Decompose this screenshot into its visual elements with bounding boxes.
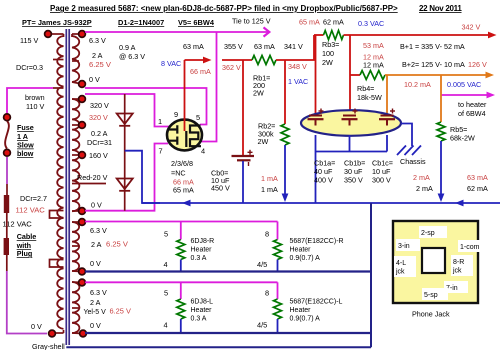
svg-text:10.2 mA: 10.2 mA bbox=[404, 80, 431, 89]
wire plug to 0V bbox=[6, 213, 8, 238]
svg-text:8 VAC: 8 VAC bbox=[161, 59, 181, 68]
ground bus bbox=[142, 202, 500, 204]
phone jack box bbox=[393, 221, 478, 303]
svg-text:5: 5 bbox=[164, 289, 168, 298]
svg-text:400 V: 400 V bbox=[314, 176, 333, 185]
svg-text:of 6BW4: of 6BW4 bbox=[458, 109, 486, 118]
tap dot 0V w3 bbox=[80, 330, 87, 337]
svg-text:342 V: 342 V bbox=[462, 23, 481, 32]
wire 5687-R bottom bbox=[277, 260, 279, 272]
svg-text:18k-5W: 18k-5W bbox=[357, 93, 382, 102]
svg-text:Rb4=: Rb4= bbox=[357, 84, 374, 93]
svg-text:0 V: 0 V bbox=[91, 201, 102, 210]
svg-text:110 V: 110 V bbox=[26, 102, 44, 111]
svg-text:53 mA: 53 mA bbox=[363, 41, 384, 50]
svg-text:1-com: 1-com bbox=[460, 244, 480, 251]
svg-text:2 A: 2 A bbox=[92, 51, 103, 60]
resistor 5687-R heater bbox=[274, 240, 282, 260]
wire B+2 orange bbox=[385, 74, 486, 76]
svg-text:DCr=0.3: DCr=0.3 bbox=[16, 63, 43, 72]
plug block bbox=[4, 238, 9, 255]
wire 320V to pin1 bbox=[85, 94, 169, 127]
wire diode junction to ground bus bbox=[125, 151, 160, 203]
svg-text:4: 4 bbox=[164, 321, 168, 330]
wire 6.3V-0V to pin5 bbox=[85, 88, 207, 125]
svg-text:0.005 VAC: 0.005 VAC bbox=[447, 80, 481, 89]
svg-text:3-in: 3-in bbox=[398, 243, 410, 250]
tap dot 0V heater bbox=[79, 81, 86, 88]
wire plate output arrow bbox=[185, 59, 205, 61]
svg-text:4-L: 4-L bbox=[396, 260, 406, 267]
svg-text:9: 9 bbox=[174, 110, 178, 119]
svg-text:4: 4 bbox=[201, 147, 205, 156]
svg-text:7: 7 bbox=[159, 147, 163, 156]
resistor 6DJ8-L heater bbox=[177, 299, 185, 319]
svg-text:115 V: 115 V bbox=[20, 36, 38, 45]
svg-text:4/5: 4/5 bbox=[257, 260, 267, 269]
svg-text:1 mA: 1 mA bbox=[261, 174, 278, 183]
jack pin 3-in bbox=[396, 239, 420, 251]
diode D2 bbox=[117, 179, 133, 190]
tube V5 6BW4 bbox=[167, 120, 202, 151]
svg-text:12 mA: 12 mA bbox=[363, 61, 384, 70]
svg-text:100: 100 bbox=[322, 49, 334, 58]
heater return R blue bbox=[85, 270, 371, 272]
svg-text:Chassis: Chassis bbox=[400, 157, 426, 166]
wire to heater of 6BW4 bbox=[441, 94, 487, 96]
svg-text:@ 6.3 V: @ 6.3 V bbox=[119, 52, 145, 61]
wire 5687-L bottom bbox=[277, 319, 279, 333]
primary stub DCr bbox=[53, 59, 64, 61]
tap dot 160V bbox=[79, 152, 86, 159]
dot primary bottom bbox=[49, 330, 56, 337]
svg-text:6DJ8-L: 6DJ8-L bbox=[191, 299, 214, 306]
wire diode branch bbox=[124, 94, 126, 211]
tap dot 6.3V w2 bbox=[79, 219, 86, 226]
svg-text:6DJ8-R: 6DJ8-R bbox=[191, 238, 215, 245]
wire Rb2 to ground arrow bbox=[284, 145, 286, 194]
svg-text:8: 8 bbox=[265, 289, 269, 298]
svg-text:2W: 2W bbox=[322, 58, 333, 67]
navy rail bottom bbox=[66, 346, 371, 348]
svg-text:to heater: to heater bbox=[458, 100, 487, 109]
svg-text:0 V: 0 V bbox=[31, 322, 42, 331]
heater feed R magenta bbox=[85, 221, 278, 223]
wire pin4 to tie line bbox=[201, 32, 217, 142]
svg-text:66 mA: 66 mA bbox=[190, 67, 211, 76]
svg-text:Heater: Heater bbox=[191, 247, 213, 254]
svg-text:Rb3=: Rb3= bbox=[322, 40, 339, 49]
svg-text:6.25 V: 6.25 V bbox=[89, 60, 112, 69]
wire 6DJ8-R bottom bbox=[180, 260, 182, 272]
svg-text:126 V: 126 V bbox=[468, 60, 487, 69]
svg-text:Phone Jack: Phone Jack bbox=[412, 310, 450, 319]
wire brown 110V to fuse bbox=[7, 88, 53, 114]
resistor Rb5 bbox=[437, 122, 445, 141]
svg-text:2 A: 2 A bbox=[91, 240, 102, 249]
svg-text:0.9(0.7) A: 0.9(0.7) A bbox=[290, 316, 321, 323]
primary stub low bbox=[50, 260, 64, 268]
tap dot 0V w2 bbox=[79, 268, 86, 275]
secondary HV winding bbox=[72, 99, 79, 211]
capacitor Cb1b bbox=[343, 115, 356, 117]
svg-text:63 mA: 63 mA bbox=[183, 42, 204, 51]
svg-text:5687(E182CC)-R: 5687(E182CC)-R bbox=[290, 238, 344, 245]
phone jack center hole bbox=[422, 248, 445, 273]
transformer core bbox=[65, 29, 67, 345]
svg-text:Fuse: Fuse bbox=[17, 123, 34, 132]
svg-text:22 Nov 2011: 22 Nov 2011 bbox=[419, 4, 462, 13]
svg-text:blow: blow bbox=[17, 149, 34, 158]
svg-text:jck: jck bbox=[452, 268, 462, 275]
svg-text:62 mA: 62 mA bbox=[323, 18, 344, 27]
wire Rb3 to B+1 arrow bbox=[344, 34, 489, 36]
svg-text:=NC: =NC bbox=[171, 169, 186, 178]
svg-text:62 mA: 62 mA bbox=[467, 184, 488, 193]
svg-text:0.3 A: 0.3 A bbox=[191, 316, 207, 323]
tube pin 9 red wire bbox=[184, 60, 186, 131]
svg-text:Heater: Heater bbox=[290, 307, 312, 314]
svg-text:Red-20 V: Red-20 V bbox=[77, 173, 108, 182]
svg-text:2-sp: 2-sp bbox=[421, 230, 435, 237]
svg-text:0.2 A: 0.2 A bbox=[91, 129, 108, 138]
svg-text:68k-2W: 68k-2W bbox=[450, 134, 475, 143]
cable ferrite block bbox=[4, 195, 9, 213]
svg-text:0.3 VAC: 0.3 VAC bbox=[358, 19, 384, 28]
svg-text:63 mA: 63 mA bbox=[467, 173, 488, 182]
wire fuse to plug bbox=[6, 157, 8, 184]
svg-text:2W: 2W bbox=[258, 137, 269, 146]
can capacitor Cb1 bbox=[301, 110, 401, 136]
wire Cb1a feed bbox=[315, 35, 317, 116]
svg-text:8: 8 bbox=[265, 230, 269, 239]
secondary winding 6.3V heater top bbox=[72, 36, 79, 82]
svg-text:112 VAC: 112 VAC bbox=[16, 206, 46, 215]
primary tap brown 110V bbox=[53, 87, 64, 89]
wire Rb5 to ground arrow bbox=[440, 141, 442, 194]
wire Rb1 to corner bbox=[276, 35, 314, 60]
heater feed L magenta bbox=[85, 281, 278, 283]
wire can to chassis bbox=[401, 124, 412, 147]
svg-text:0.3 A: 0.3 A bbox=[191, 255, 207, 262]
svg-text:Heater: Heater bbox=[290, 247, 312, 254]
jack pin 5-sp bbox=[422, 288, 448, 300]
svg-text:6.25 V: 6.25 V bbox=[110, 307, 131, 316]
resistor Rb1 bbox=[252, 56, 276, 65]
wire pin7 to 0V bbox=[85, 144, 168, 211]
svg-text:5: 5 bbox=[164, 230, 168, 239]
svg-text:0 V: 0 V bbox=[89, 75, 100, 84]
capacitor Cb1c bbox=[381, 115, 394, 117]
wire Cb0 node bbox=[242, 60, 244, 156]
diode D1 bbox=[117, 114, 133, 125]
svg-text:6.25 V: 6.25 V bbox=[106, 240, 129, 249]
svg-text:Page 2 measured 5687: <new pla: Page 2 measured 5687: <new plan-6DJ8-dc-… bbox=[50, 4, 398, 13]
capacitor Cb0 bbox=[232, 155, 255, 157]
dot primary top bbox=[45, 31, 52, 38]
jack pin 8-R jck bbox=[451, 255, 473, 276]
svg-text:Tie to 125 V: Tie to 125 V bbox=[232, 17, 271, 26]
svg-text:0 V: 0 V bbox=[90, 259, 101, 268]
svg-text:300 V: 300 V bbox=[372, 176, 391, 185]
svg-text:DCr=2.7: DCr=2.7 bbox=[20, 194, 47, 203]
svg-text:63 mA: 63 mA bbox=[254, 42, 275, 51]
svg-text:320 V: 320 V bbox=[89, 113, 108, 122]
primary stub mid bbox=[50, 211, 64, 219]
wire B+1 down to Rb4 bbox=[349, 35, 351, 75]
svg-text:1: 1 bbox=[158, 117, 162, 126]
svg-text:2/3/6/8: 2/3/6/8 bbox=[171, 159, 193, 168]
svg-text:0.9(0.7) A: 0.9(0.7) A bbox=[290, 255, 321, 262]
secondary 6.3V winding 2 bbox=[72, 222, 79, 271]
svg-text:8-R: 8-R bbox=[453, 259, 464, 266]
wire Cb1c feed bbox=[386, 75, 388, 116]
svg-text:1 mA: 1 mA bbox=[261, 185, 278, 194]
svg-text:B+2= 125 V- 10 mA: B+2= 125 V- 10 mA bbox=[402, 60, 465, 69]
svg-text:341 V: 341 V bbox=[284, 42, 303, 51]
svg-text:PT= James JS-932P: PT= James JS-932P bbox=[22, 18, 92, 27]
svg-text:160 V: 160 V bbox=[89, 151, 108, 160]
svg-text:2W: 2W bbox=[253, 89, 264, 98]
svg-text:450 V: 450 V bbox=[211, 184, 230, 193]
wire Cb1b feed bbox=[349, 75, 351, 116]
chassis ground symbol bbox=[397, 146, 421, 156]
tap dot 320V red bbox=[79, 122, 86, 129]
svg-text:Plug: Plug bbox=[17, 249, 33, 258]
svg-text:5-sp: 5-sp bbox=[424, 292, 438, 299]
wire Cb0 to ground bbox=[242, 161, 244, 203]
capacitor Cb1a bbox=[309, 115, 322, 117]
svg-text:Gray-shell: Gray-shell bbox=[32, 342, 65, 350]
svg-text:320 V: 320 V bbox=[90, 101, 109, 110]
svg-text:355 V: 355 V bbox=[224, 42, 243, 51]
fuse F1 bbox=[5, 121, 9, 149]
navy vertical right bbox=[370, 203, 372, 347]
primary tap 115V bbox=[48, 33, 64, 35]
svg-text:1 VAC: 1 VAC bbox=[288, 77, 308, 86]
svg-text:B+1 = 335 V- 52 mA: B+1 = 335 V- 52 mA bbox=[400, 42, 465, 51]
svg-text:6.3 V: 6.3 V bbox=[89, 36, 106, 45]
svg-text:DCr=31: DCr=31 bbox=[87, 138, 112, 147]
svg-text:0.9 A: 0.9 A bbox=[119, 43, 136, 52]
secondary 6.3V winding 3 bbox=[72, 282, 79, 333]
wire Rb5 feed bbox=[440, 75, 442, 122]
svg-text:2 mA: 2 mA bbox=[416, 184, 433, 193]
jack pin 1-com bbox=[458, 240, 488, 252]
svg-text:Yel-5 V: Yel-5 V bbox=[84, 309, 107, 316]
wire 348V node down to Rb2 bbox=[284, 60, 286, 124]
resistor Rb3 bbox=[324, 31, 344, 40]
primary tap 0V bottom bbox=[52, 332, 64, 334]
tap dot 0V hv bbox=[79, 208, 86, 215]
svg-text:4: 4 bbox=[164, 260, 168, 269]
wire tie-to-125V bbox=[85, 31, 268, 33]
resistor 6DJ8-R heater bbox=[177, 240, 185, 260]
svg-text:6.3 V: 6.3 V bbox=[90, 226, 107, 235]
svg-text:brown: brown bbox=[25, 93, 45, 102]
svg-text:6.3 V: 6.3 V bbox=[90, 288, 107, 297]
svg-text:Cable: Cable bbox=[17, 232, 37, 241]
svg-text:350 V: 350 V bbox=[344, 176, 363, 185]
svg-text:2 A: 2 A bbox=[90, 298, 101, 307]
svg-text:65 mA: 65 mA bbox=[299, 18, 320, 27]
svg-text:V5= 6BW4: V5= 6BW4 bbox=[178, 18, 215, 27]
jack pin 7-in bbox=[444, 281, 468, 293]
heater return L blue bbox=[85, 332, 371, 334]
svg-text:0 V: 0 V bbox=[90, 321, 101, 330]
wire B+1 line bbox=[314, 34, 324, 36]
svg-text:5687(E182CC)-L: 5687(E182CC)-L bbox=[290, 299, 343, 306]
svg-text:5: 5 bbox=[196, 113, 200, 122]
tube internal plates bbox=[168, 125, 178, 145]
svg-text:362 V: 362 V bbox=[222, 63, 241, 72]
svg-text:jck: jck bbox=[395, 269, 405, 276]
svg-text:65 mA: 65 mA bbox=[173, 186, 194, 195]
svg-text:4/5: 4/5 bbox=[257, 321, 267, 330]
svg-text:D1-2=1N4007: D1-2=1N4007 bbox=[118, 18, 164, 27]
jack pin 2-sp bbox=[419, 226, 447, 238]
tap dot 6.3V w3 bbox=[79, 279, 86, 286]
tap dot 320V bbox=[79, 96, 86, 103]
tap dot 6.3V top bbox=[79, 31, 86, 38]
jack pin 4-L jck bbox=[394, 256, 416, 277]
wire 6DJ8-L bottom bbox=[180, 319, 182, 333]
transformer primary winding bbox=[57, 36, 63, 329]
svg-text:2 mA: 2 mA bbox=[413, 173, 430, 182]
resistor Rb4 bbox=[350, 74, 360, 76]
svg-text:348 V: 348 V bbox=[288, 62, 307, 71]
wire 355V line bbox=[222, 59, 252, 61]
svg-text:Heater: Heater bbox=[191, 307, 213, 314]
resistor Rb2 bbox=[281, 124, 289, 145]
wire can caps common bbox=[315, 135, 317, 203]
resistor 5687-L heater bbox=[274, 299, 282, 319]
